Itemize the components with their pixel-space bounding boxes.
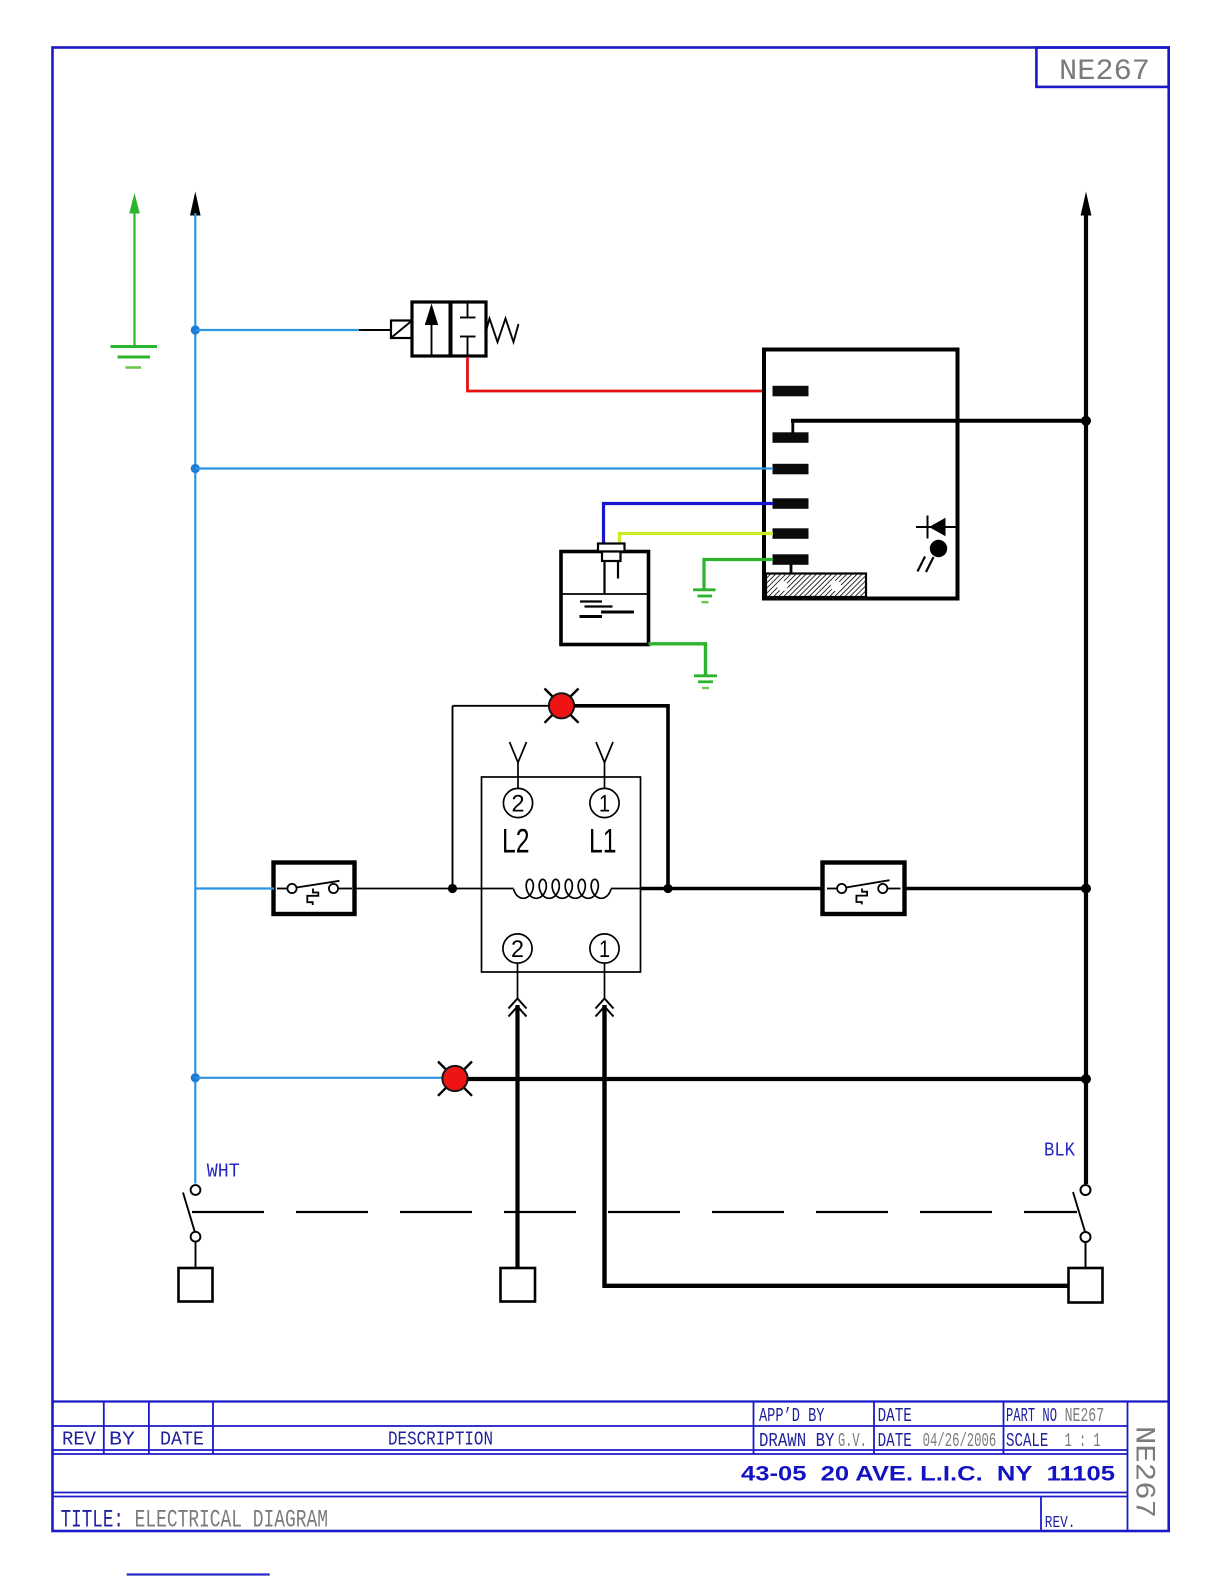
node WHT supply bus (cyan vertical line with arrow) <box>190 192 201 1184</box>
label REV. (bottom) <box>1045 1514 1076 1533</box>
wire board terminal 5 to level sensor (yellow-green) <box>620 534 774 546</box>
wire relay pin 1 bottom stub <box>604 963 606 998</box>
label DATE (rev) <box>160 1429 204 1451</box>
terminal box (BLK) <box>1069 1268 1103 1303</box>
relay pin 2 (bottom) <box>503 934 532 963</box>
svg-text:SCALE: SCALE <box>1006 1430 1048 1452</box>
junction node on WHT bus at solenoid branch <box>191 325 200 334</box>
board terminal 2 <box>773 432 809 443</box>
label SCALE with value 1 : 1 <box>1006 1430 1101 1452</box>
svg-text:1: 1 <box>599 936 610 963</box>
ground symbol (board) <box>693 590 716 602</box>
plug switch BLK <box>1073 1185 1091 1268</box>
svg-text:L2: L2 <box>502 822 530 860</box>
board terminal 3 <box>773 464 809 475</box>
label L1 <box>589 822 617 860</box>
junction node lamp branch left <box>448 884 457 893</box>
relay pin 1 (bottom) <box>590 934 619 963</box>
terminal box (pin 2 wire) <box>501 1268 536 1302</box>
svg-text:NE267: NE267 <box>1128 1426 1159 1518</box>
wire lead into solenoid coil (black) <box>359 329 391 331</box>
label PART NO with value <box>1006 1405 1104 1427</box>
indicator lamp DS2 (red, bottom) <box>438 1062 472 1096</box>
relay K1 outline box <box>482 777 641 972</box>
svg-text:G.V.: G.V. <box>838 1430 867 1452</box>
board terminal 1 <box>773 386 809 397</box>
label DATE (appd) <box>878 1405 912 1427</box>
svg-text:DRAWN BY: DRAWN BY <box>759 1430 835 1452</box>
label L2 <box>502 822 530 860</box>
wire relay coil to switch S2 (thick black) <box>641 887 824 891</box>
label WHT <box>207 1161 240 1183</box>
svg-text:DATE: DATE <box>878 1430 912 1452</box>
node BLK supply bus (black vertical line with arrow) <box>1081 192 1092 1185</box>
wire WHT bus to lamp DS2 (cyan) <box>195 1077 443 1079</box>
relay pin 1 (top) <box>590 788 619 817</box>
wire WHT bus to board terminal 3 (cyan) <box>195 467 773 469</box>
board terminal 4 <box>773 498 809 509</box>
svg-text:NE267: NE267 <box>1065 1405 1105 1427</box>
relay coil K1 <box>482 879 641 898</box>
pressure switch S1 (left) <box>274 863 355 915</box>
terminal box (WHT) <box>179 1268 213 1302</box>
junction node on WHT bus at board branch <box>191 464 200 473</box>
wire relay pin 2 to terminal box (thick) <box>515 1005 519 1268</box>
svg-text:BLK: BLK <box>1044 1140 1076 1162</box>
wire switch S1 to relay coil (thin black) <box>355 888 482 890</box>
connector fork (terminal 2 top) <box>510 742 527 789</box>
label DRAWN BY with value G.V. <box>759 1430 867 1452</box>
wire relay pin 1 to BLK terminal box (thick) <box>605 1005 1069 1286</box>
wire lamp DS2 to BLK bus (thick black) <box>468 1077 1087 1081</box>
earth ground symbol (green, top left) <box>111 193 158 368</box>
cable marker chevrons (pin 1 wire) <box>596 999 614 1017</box>
wire lamp DS1 to L1 side (thick) <box>574 706 668 889</box>
LED D1 on board <box>916 516 957 573</box>
label REV <box>62 1429 97 1451</box>
svg-text:DATE: DATE <box>160 1429 204 1451</box>
ground symbol (tank) <box>694 676 717 688</box>
svg-text:APP’D BY: APP’D BY <box>759 1405 825 1427</box>
junction node lamp branch right <box>663 884 672 893</box>
control board U1 <box>764 350 958 599</box>
solenoid valve SV1 <box>391 302 519 356</box>
wire board terminal 6 to ground (green) <box>704 560 773 591</box>
relay pin 2 (top) <box>503 788 532 817</box>
wire WHT bus to switch S1 (cyan) <box>195 887 274 889</box>
board terminal 5 <box>773 528 809 539</box>
drawing number box NE267 (top right) <box>1036 48 1168 90</box>
label BLK <box>1044 1140 1076 1162</box>
junction node BLK bus at board wire <box>1081 416 1091 426</box>
wire WHT bus to solenoid (cyan) <box>195 329 359 331</box>
wire relay coil left to lamp DS1 (thin) <box>453 706 550 889</box>
junction node BLK bus at lamp line <box>1081 1074 1091 1084</box>
svg-text:TITLE:: TITLE: <box>61 1506 124 1535</box>
svg-text:04/26/2006: 04/26/2006 <box>923 1430 997 1452</box>
board mounting plate (hatched) <box>766 574 866 598</box>
junction node on WHT bus at lamp branch <box>191 1073 200 1082</box>
company address line <box>741 1462 1115 1485</box>
vertical part number NE267 <box>1128 1426 1159 1518</box>
cable marker chevrons (pin 2 wire) <box>509 999 527 1017</box>
svg-text:REV.: REV. <box>1045 1514 1076 1533</box>
title block grid lines <box>53 1402 1169 1532</box>
svg-text:1: 1 <box>599 791 610 818</box>
svg-text:1 : 1: 1 : 1 <box>1065 1430 1101 1452</box>
plug switch WHT <box>183 1185 200 1268</box>
label DATE with value 04/26/2006 <box>878 1430 997 1452</box>
svg-text:ELECTRICAL DIAGRAM: ELECTRICAL DIAGRAM <box>135 1506 328 1535</box>
svg-text:DESCRIPTION: DESCRIPTION <box>388 1429 493 1451</box>
label BY <box>109 1429 136 1451</box>
junction node BLK bus at coil line <box>1081 884 1091 894</box>
svg-text:BY: BY <box>109 1429 136 1451</box>
svg-text:L1: L1 <box>589 822 617 860</box>
pressure switch S2 (right) <box>823 863 905 915</box>
title text <box>61 1506 328 1535</box>
board terminal 6 <box>773 554 809 565</box>
wire tank to ground (green) <box>649 644 706 676</box>
svg-text:DATE: DATE <box>878 1405 912 1427</box>
connector fork (terminal 1 top) <box>596 742 613 789</box>
wire board terminal 6 to mounting plate <box>790 564 793 575</box>
power cord dashed line <box>192 1211 1077 1213</box>
wire solenoid to board terminal 1 (red) <box>468 357 777 391</box>
svg-text:2: 2 <box>512 791 525 818</box>
water tank with level sensor <box>561 544 649 645</box>
label DESCRIPTION <box>388 1429 493 1451</box>
indicator lamp DS1 (red, relay top) <box>545 689 579 723</box>
stray blue line below frame <box>127 1573 270 1575</box>
svg-text:2: 2 <box>511 936 524 963</box>
wire switch S2 to BLK bus (thick black) <box>905 887 1087 891</box>
wire board terminal 2 to BLK bus (black) <box>791 421 1086 434</box>
svg-text:REV: REV <box>62 1429 97 1451</box>
svg-text:WHT: WHT <box>207 1161 240 1183</box>
svg-text:43-05 20 AVE. L.I.C. NY 111: 43-05 20 AVE. L.I.C. NY 11105 <box>741 1462 1115 1485</box>
svg-text:PART NO: PART NO <box>1006 1405 1057 1427</box>
wire relay pin 2 bottom stub <box>517 963 519 998</box>
wire board terminal 4 to level sensor (blue) <box>604 504 774 546</box>
svg-text:NE267: NE267 <box>1059 55 1150 89</box>
label APP'D BY <box>759 1405 825 1427</box>
